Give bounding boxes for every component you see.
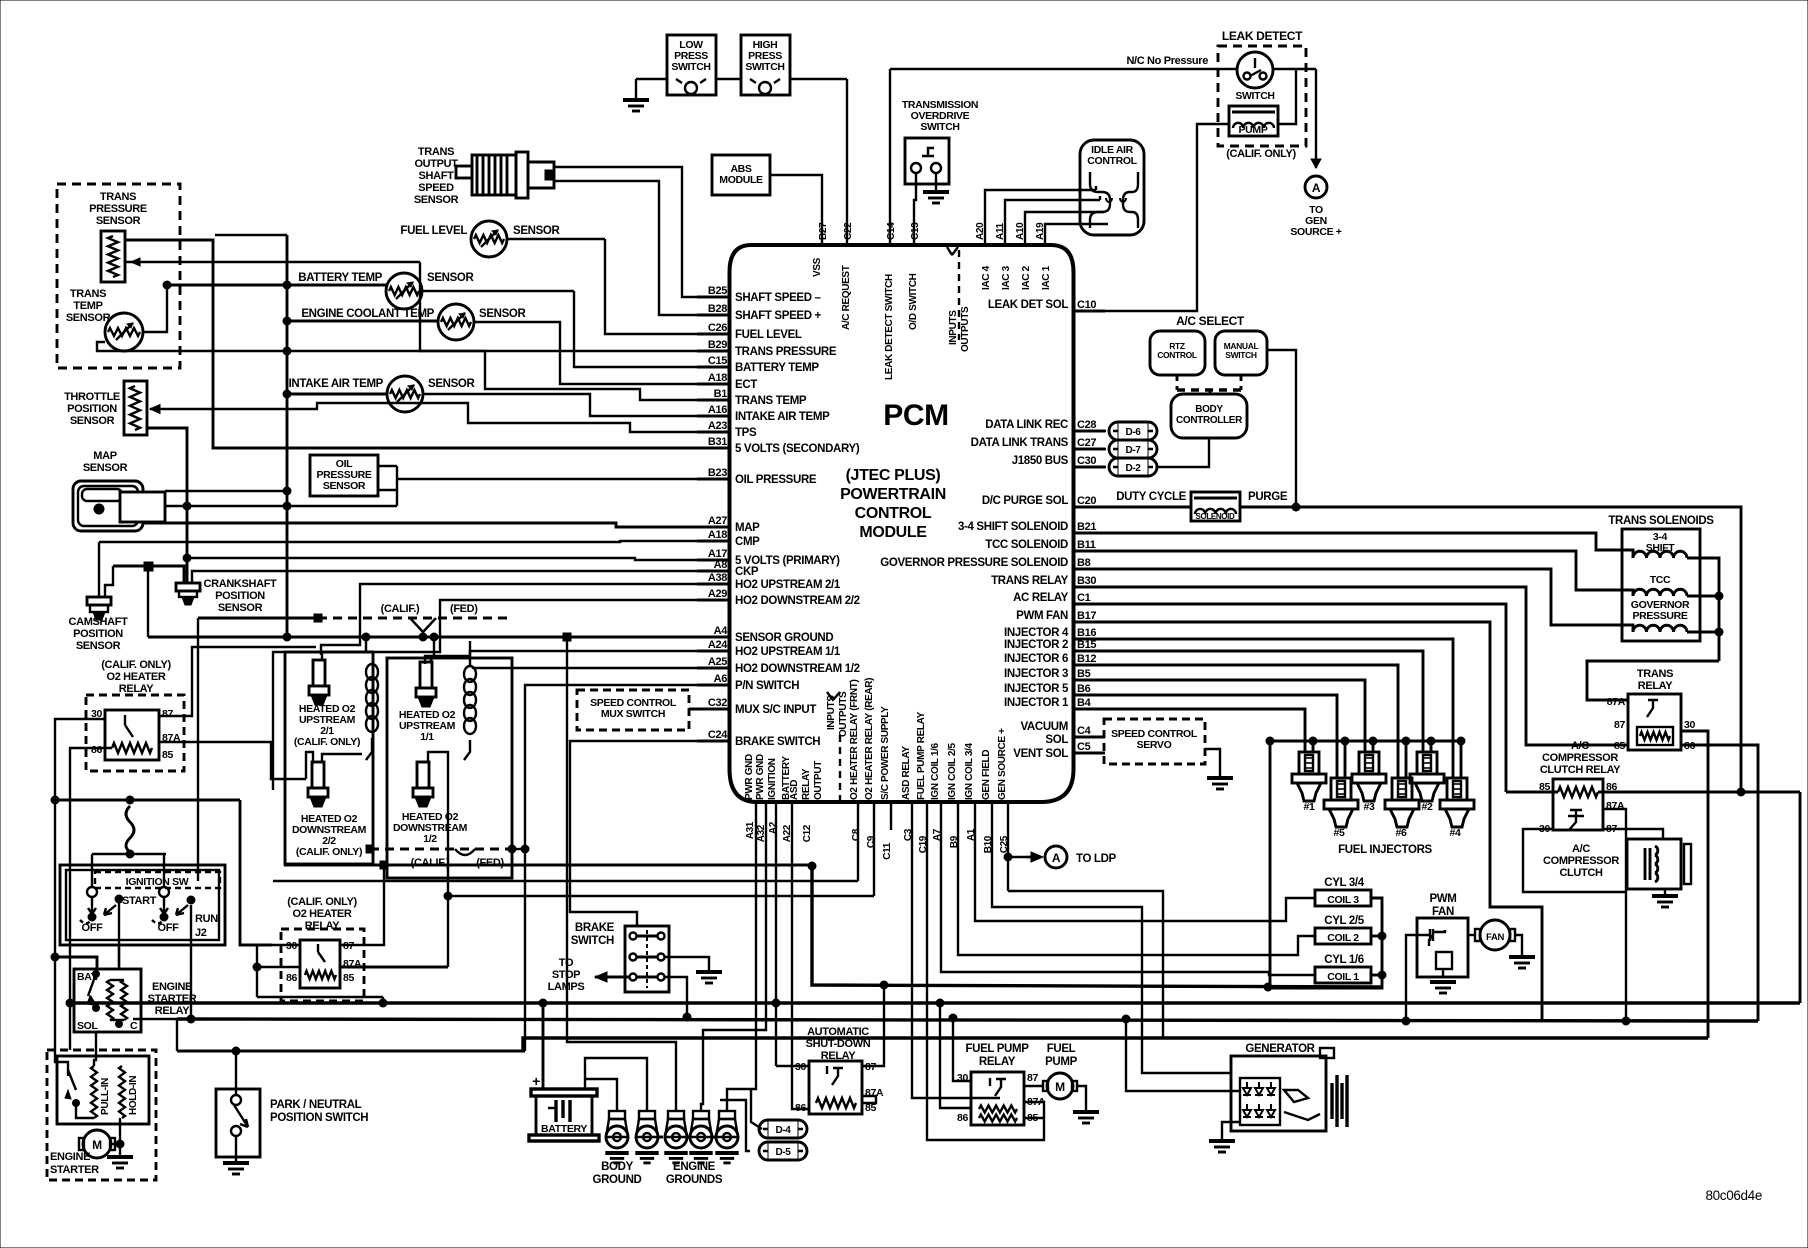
- wire relay1 87A: [159, 742, 306, 779]
- svg-text:MODULE: MODULE: [719, 174, 763, 186]
- svg-text:+: +: [532, 1073, 540, 1089]
- svg-text:P/N SWITCH: P/N SWITCH: [735, 680, 799, 692]
- body ground lug 1: [609, 1111, 625, 1119]
- rtz control box: [1150, 331, 1205, 375]
- svg-text:HO2 DOWNSTREAM 1/2: HO2 DOWNSTREAM 1/2: [735, 663, 860, 675]
- svg-text:O2 HEATER: O2 HEATER: [107, 671, 166, 683]
- high press switch label: [745, 39, 784, 73]
- coil 2 box: [1315, 928, 1371, 944]
- PCM pin A29 HO2 DOWNSTREAM 2/2: [697, 588, 860, 607]
- wire C3 asd relay pin down: [912, 802, 1000, 1098]
- svg-text:BRAKE: BRAKE: [575, 922, 615, 934]
- speed control mux switch label: [590, 697, 677, 720]
- svg-text:SENSOR: SENSOR: [479, 308, 527, 320]
- svg-text:ECT: ECT: [735, 379, 757, 391]
- park neutral position switch box: [216, 1089, 260, 1157]
- MAP sensor symbol: [73, 481, 165, 531]
- engine starter label: [50, 1151, 99, 1176]
- svg-text:D-4: D-4: [775, 1125, 791, 1136]
- svg-text:SHAFT: SHAFT: [419, 170, 455, 182]
- wire sol down to pull-in: [94, 1056, 96, 1066]
- svg-text:SENSOR: SENSOR: [428, 378, 476, 390]
- svg-text:A16: A16: [708, 404, 727, 416]
- wire fuel relay 30 riser: [949, 1014, 971, 1081]
- wire engine coolant temp A18: [283, 317, 730, 384]
- svg-text:A2: A2: [768, 821, 779, 834]
- svg-text:TRANS SOLENOIDS: TRANS SOLENOIDS: [1608, 515, 1714, 527]
- wire B31 5 volts secondary: [125, 240, 730, 448]
- trans output shaft speed sensor symbol: [456, 152, 554, 198]
- PCM pin C3 ASD RELAY: [901, 746, 914, 841]
- svg-text:SENSOR: SENSOR: [96, 215, 141, 227]
- fuel pump motor: [1024, 1073, 1086, 1112]
- a/c select dashed wires: [1177, 375, 1241, 394]
- svg-text:SENSOR: SENSOR: [76, 640, 121, 652]
- wire intake air temp A16: [283, 390, 730, 416]
- engine starter motor M: [79, 1118, 124, 1158]
- body ground label: [592, 1161, 641, 1186]
- svg-text:O/D SWITCH: O/D SWITCH: [908, 273, 919, 330]
- heated O2 upstream 2/1 label: [294, 703, 360, 748]
- wire manual switch to purge line: [1267, 350, 1296, 507]
- svg-text:86: 86: [957, 1112, 968, 1124]
- svg-text:A/C: A/C: [1572, 843, 1590, 855]
- svg-text:86: 86: [91, 744, 102, 756]
- ignition run line y1051: [177, 1050, 525, 1053]
- engine grounds label: [666, 1161, 723, 1186]
- svg-text:ENGINE: ENGINE: [50, 1151, 90, 1163]
- wire HO2 upstream 2/1 A38: [321, 584, 730, 655]
- battery symbol: [529, 1073, 599, 1141]
- svg-text:PWM: PWM: [1429, 893, 1456, 905]
- svg-text:OUTPUTS: OUTPUTS: [960, 306, 971, 352]
- svg-text:DATA LINK REC: DATA LINK REC: [985, 419, 1068, 431]
- low press switch box: [667, 35, 716, 95]
- pwm fan module: [1417, 918, 1468, 977]
- svg-text:CYL 1/6: CYL 1/6: [1324, 954, 1364, 966]
- wire trans relay 86 to rail: [1681, 745, 1758, 1021]
- PCM pin C11 S/C POWER SUPPLY: [880, 706, 893, 860]
- svg-text:B30: B30: [1077, 575, 1096, 587]
- trans pressure sensor dashed box: [57, 184, 180, 368]
- svg-text:IAC 3: IAC 3: [1001, 265, 1012, 290]
- heated O2 downstream 1/2 label: [393, 811, 468, 845]
- svg-text:87A: 87A: [1607, 696, 1626, 708]
- generator ground: [1209, 1122, 1240, 1152]
- svg-text:OFF: OFF: [158, 922, 180, 934]
- svg-text:INJECTOR 2: INJECTOR 2: [1004, 639, 1068, 651]
- a/c compressor clutch label: [1543, 843, 1619, 879]
- camshaft position sensor symbol: [87, 597, 111, 620]
- svg-text:SWITCH: SWITCH: [1235, 90, 1274, 102]
- svg-text:TRANS PRESSURE: TRANS PRESSURE: [735, 346, 837, 358]
- idle air control label: [1087, 144, 1137, 167]
- idle air control valve symbol: [1090, 172, 1138, 228]
- wire C14 leak detect to switch and gen source: [890, 69, 1321, 245]
- PCM pin C25 GEN SOURCE +: [997, 728, 1010, 853]
- calif fed dashed boundary upper: [198, 614, 511, 637]
- svg-text:N/C No Pressure: N/C No Pressure: [1126, 55, 1208, 67]
- svg-text:SOL: SOL: [77, 1020, 98, 1032]
- svg-text:C9: C9: [866, 835, 877, 848]
- ABS module label: [719, 163, 763, 186]
- svg-text:C15: C15: [708, 355, 727, 367]
- svg-text:FUEL PUMP RELAY: FUEL PUMP RELAY: [916, 711, 927, 800]
- svg-text:J1850 BUS: J1850 BUS: [1012, 455, 1069, 467]
- PCM pin C20 D/C PURGE SOL: [982, 495, 1105, 507]
- engine starter dashed box: [47, 1050, 156, 1180]
- wire B11 to tcc: [1105, 551, 1633, 596]
- ABS module box: [712, 155, 770, 195]
- svg-text:SHAFT SPEED +: SHAFT SPEED +: [735, 310, 822, 322]
- svg-text:RELAY: RELAY: [979, 1056, 1016, 1068]
- wire B4 injector 1: [1105, 709, 1305, 752]
- PCM pin B27 VSS: [812, 222, 829, 277]
- svg-text:OFF: OFF: [82, 922, 104, 934]
- fuel pump relay label: [965, 1043, 1029, 1068]
- svg-text:A24: A24: [708, 639, 728, 651]
- svg-text:(JTEC PLUS): (JTEC PLUS): [846, 467, 941, 484]
- node A to LDP: [1045, 846, 1117, 868]
- PCM pin B16 INJECTOR 4: [1004, 627, 1105, 639]
- svg-text:87: 87: [1614, 719, 1625, 731]
- svg-text:FUEL LEVEL: FUEL LEVEL: [400, 225, 467, 237]
- svg-text:LEAK DETECT: LEAK DETECT: [1222, 29, 1303, 43]
- PCM pin B4 INJECTOR 1: [1004, 697, 1105, 709]
- wire brake switch bottom to y1017: [665, 977, 687, 1017]
- ground fan: [1509, 955, 1535, 959]
- wire ABS to B27 VSS: [770, 175, 822, 245]
- wire trans relay 30 to rail: [1681, 731, 1708, 1038]
- wire B16 injector 4 drop: [1105, 639, 1453, 778]
- svg-text:GEN FIELD: GEN FIELD: [981, 750, 992, 800]
- svg-text:#5: #5: [1334, 827, 1345, 839]
- wire x383 down to y1003: [382, 997, 384, 1003]
- arrow to stop lamps: [595, 972, 629, 982]
- svg-text:VACUUM: VACUUM: [1020, 721, 1068, 733]
- svg-text:SOL: SOL: [1045, 734, 1068, 746]
- wire B6 injector 5 drop: [1105, 695, 1337, 778]
- svg-text:FUEL PUMP: FUEL PUMP: [965, 1043, 1029, 1055]
- wire A1 to coil 3: [975, 802, 1315, 921]
- fuel level sensor thermistor: [471, 221, 507, 257]
- ground brake switch: [696, 970, 722, 974]
- fuel injector #6: [1385, 778, 1419, 839]
- svg-text:SOURCE +: SOURCE +: [1290, 226, 1341, 238]
- svg-text:ASD RELAY: ASD RELAY: [901, 746, 912, 800]
- automatic shut-down relay label: [806, 1026, 871, 1062]
- svg-text:IGN COIL 1/6: IGN COIL 1/6: [930, 742, 941, 800]
- svg-text:SENSOR: SENSOR: [66, 312, 111, 324]
- wire o2 1/1 sensor leads: [430, 633, 470, 666]
- crankshaft position sensor symbol: [176, 583, 200, 605]
- PCM title text: [840, 399, 949, 541]
- PCM pin C30 J1850 BUS: [1012, 455, 1105, 467]
- wire C11 stub down: [890, 802, 892, 830]
- svg-text:RELAY: RELAY: [119, 683, 155, 695]
- wire battery positive up to y1003: [539, 999, 547, 1089]
- wire C13 o/d switch: [914, 173, 916, 245]
- svg-text:A: A: [1312, 181, 1321, 195]
- svg-text:ENGINE: ENGINE: [673, 1161, 716, 1173]
- wire B9 to coil 2: [958, 802, 1315, 955]
- svg-text:C30: C30: [1077, 455, 1096, 467]
- trans temp sensor label: [66, 288, 111, 324]
- wire relay2 87 up: [340, 865, 384, 945]
- PCM pin C13 O/D SWITCH: [908, 222, 921, 330]
- wire B12 injector 6 drop: [1105, 665, 1398, 778]
- sensor ground line A4: [148, 633, 730, 641]
- generator pulley: [1332, 1075, 1347, 1127]
- trans pressure sensor resistor: [101, 231, 125, 282]
- svg-text:TRANS: TRANS: [1637, 668, 1673, 680]
- svg-text:POSITION SWITCH: POSITION SWITCH: [270, 1112, 368, 1124]
- leak detect pump symbol: [1229, 106, 1278, 136]
- svg-text:BATTERY: BATTERY: [541, 1123, 587, 1135]
- wire C27 to D-7: [1074, 448, 1107, 450]
- svg-text:GROUND: GROUND: [592, 1174, 641, 1186]
- purge solenoid symbol: [1191, 492, 1240, 521]
- heated O2 upstream 1/1 label: [399, 709, 456, 743]
- svg-text:O2 HEATER: O2 HEATER: [293, 908, 352, 920]
- svg-text:A29: A29: [708, 588, 727, 600]
- svg-text:86: 86: [286, 972, 297, 984]
- wire x198 down: [197, 618, 199, 881]
- brake switch box: [625, 926, 669, 992]
- svg-text:CLUTCH: CLUTCH: [1559, 867, 1603, 879]
- manual switch box: [1215, 331, 1267, 375]
- svg-text:MAP: MAP: [735, 522, 760, 534]
- svg-text:FUEL: FUEL: [1047, 1043, 1076, 1055]
- lug dash links: [659, 1136, 716, 1139]
- PCM pin A17 5 VOLTS (PRIMARY): [697, 548, 840, 567]
- wire C32 mux: [689, 708, 730, 711]
- fuel injector #5: [1324, 778, 1358, 839]
- svg-text:CONTROL: CONTROL: [1157, 350, 1197, 360]
- wire asd relay 85-87A stub: [862, 1096, 876, 1103]
- wire A7 to coil 1: [941, 802, 1315, 975]
- svg-text:ENGINE: ENGINE: [152, 981, 192, 993]
- wire CMP signal A18: [99, 541, 730, 596]
- generator box: [1231, 1048, 1334, 1131]
- trans temp sensor thermistor: [105, 313, 143, 351]
- svg-text:A/C REQUEST: A/C REQUEST: [841, 265, 852, 330]
- PCM pin B28 SHAFT SPEED +: [697, 303, 822, 322]
- PCM pin A4 SENSOR GROUND: [697, 625, 833, 644]
- svg-text:A25: A25: [708, 656, 727, 668]
- svg-text:SENSOR: SENSOR: [414, 194, 459, 206]
- PCM pin A23 TPS: [697, 420, 757, 439]
- PCM module outline U1: [730, 245, 1074, 802]
- svg-text:FUEL INJECTORS: FUEL INJECTORS: [1338, 844, 1432, 856]
- wire fuel relay 85 stub: [1024, 1117, 1044, 1119]
- svg-text:B21: B21: [1077, 521, 1096, 533]
- svg-text:POSITION: POSITION: [73, 628, 123, 640]
- svg-text:A6: A6: [714, 673, 728, 685]
- svg-text:HO2 UPSTREAM 1/1: HO2 UPSTREAM 1/1: [735, 646, 841, 658]
- wire D-2 to body controller: [1157, 438, 1209, 467]
- wire C20 purge sol: [1074, 506, 1192, 509]
- wire oil pressure sensor B23: [378, 466, 730, 506]
- PCM pin C26 FUEL LEVEL: [697, 322, 802, 341]
- PCM pin B15 INJECTOR 2: [1004, 639, 1105, 651]
- svg-text:RUN: RUN: [195, 913, 218, 925]
- wire fuel relay 87A loop C19: [927, 802, 1044, 1140]
- PCM pin B23 OIL PRESSURE: [697, 467, 817, 486]
- crankshaft position sensor label: [204, 578, 278, 614]
- svg-text:TRANS: TRANS: [100, 191, 136, 203]
- svg-text:SERVO: SERVO: [1137, 739, 1172, 751]
- svg-text:C20: C20: [1077, 495, 1096, 507]
- oil pressure sensor box: [310, 455, 378, 496]
- wire servo to ground: [1205, 749, 1220, 778]
- svg-text:A18: A18: [708, 372, 727, 384]
- svg-text:COIL 3: COIL 3: [1327, 894, 1359, 906]
- svg-text:M: M: [92, 1138, 102, 1152]
- wire A24 HO2 upstream 1/1: [425, 651, 730, 664]
- wire fuel relay 86 riser: [936, 999, 971, 1108]
- svg-text:M: M: [1055, 1080, 1065, 1094]
- wire ignition start contact down: [118, 899, 120, 969]
- a/c compressor clutch symbol: [1627, 839, 1691, 896]
- wire o2 2/1 sensor leads: [322, 633, 370, 660]
- svg-text:(FED): (FED): [450, 603, 478, 615]
- svg-text:OIL PRESSURE: OIL PRESSURE: [735, 474, 817, 486]
- svg-text:PWM FAN: PWM FAN: [1016, 610, 1068, 622]
- svg-text:TRANS TEMP: TRANS TEMP: [735, 395, 807, 407]
- svg-text:A38: A38: [708, 572, 727, 584]
- wire ac relay 85 86 rail y792: [1506, 792, 1800, 1003]
- svg-text:A: A: [1052, 851, 1061, 865]
- ground p/n switch: [223, 1161, 249, 1165]
- svg-text:(CALIF. ONLY): (CALIF. ONLY): [287, 896, 357, 908]
- fan motor: [1468, 920, 1522, 957]
- svg-text:SENSOR: SENSOR: [323, 480, 366, 492]
- svg-text:ENGINE COOLANT TEMP: ENGINE COOLANT TEMP: [301, 308, 434, 320]
- wire C30 to D-2: [1074, 466, 1107, 468]
- svg-text:D-6: D-6: [1125, 427, 1141, 438]
- svg-text:#2: #2: [1422, 801, 1433, 813]
- injector feed bus: [1266, 737, 1461, 987]
- svg-text:ASD: ASD: [789, 780, 800, 800]
- ground for o/d switch: [923, 190, 949, 194]
- svg-text:PCM: PCM: [883, 399, 949, 432]
- PCM pin A2 IGNITION: [767, 758, 779, 834]
- svg-text:C11: C11: [882, 842, 893, 860]
- svg-text:GROUNDS: GROUNDS: [666, 1174, 723, 1186]
- transmission overdrive switch label: [902, 99, 978, 133]
- svg-text:SWITCH: SWITCH: [1225, 350, 1257, 360]
- PCM pin C15 BATTERY TEMP: [697, 355, 819, 374]
- svg-text:MAP: MAP: [93, 450, 116, 462]
- PCM pin C28 DATA LINK REC: [985, 419, 1105, 431]
- PCM pin A11 IAC 3: [995, 222, 1012, 290]
- PCM pin B30 TRANS RELAY: [991, 575, 1105, 587]
- data link connector D-7: [1109, 440, 1157, 458]
- engine coolant temp thermistor: [438, 304, 474, 340]
- PCM pin A27 MAP: [697, 515, 760, 534]
- wire C28 to D-6: [1074, 430, 1107, 432]
- wire x287 top to trans pressure: [215, 234, 287, 236]
- svg-text:C14: C14: [886, 222, 897, 240]
- wire C10 leak det sol to pump: [1074, 69, 1297, 311]
- rail y985 C12 asd output: [812, 866, 1382, 991]
- wire C22 a/c request: [846, 79, 848, 245]
- svg-text:PULL-IN: PULL-IN: [100, 1078, 111, 1115]
- svg-text:B17: B17: [1077, 610, 1096, 622]
- svg-text:SPEED: SPEED: [418, 182, 454, 194]
- PCM inputs/outputs divider bottom: [826, 691, 849, 802]
- svg-text:30: 30: [1684, 719, 1695, 731]
- svg-text:AUTOMATIC: AUTOMATIC: [807, 1026, 869, 1038]
- svg-text:SENSOR GROUND: SENSOR GROUND: [735, 632, 833, 644]
- wire CMP second lead: [105, 566, 113, 596]
- to stop lamps label: [548, 957, 585, 993]
- engine ground lug 5: [719, 1111, 735, 1119]
- svg-text:5 VOLTS (SECONDARY): 5 VOLTS (SECONDARY): [735, 443, 860, 455]
- speed control servo dashed box: [1104, 719, 1205, 764]
- svg-text:B12: B12: [1077, 653, 1096, 665]
- svg-text:B6: B6: [1077, 683, 1091, 695]
- svg-text:CAMSHAFT: CAMSHAFT: [69, 616, 129, 628]
- svg-text:PURGE: PURGE: [1248, 491, 1288, 503]
- svg-text:87: 87: [162, 708, 173, 720]
- svg-text:SENSOR: SENSOR: [427, 272, 475, 284]
- wire MAP mid to CKP bus: [147, 428, 397, 583]
- wire heater 1/2 lead to x448: [428, 752, 448, 967]
- svg-text:LEAK DET SOL: LEAK DET SOL: [988, 299, 1068, 311]
- svg-text:(CALIF. ONLY): (CALIF. ONLY): [1226, 148, 1296, 160]
- engine starter hold-in coil: [119, 1066, 139, 1118]
- svg-text:START: START: [122, 895, 157, 907]
- svg-text:HO2 DOWNSTREAM 2/2: HO2 DOWNSTREAM 2/2: [735, 595, 860, 607]
- calif only O2 heater relay label: [101, 659, 171, 695]
- svg-text:(CALIF.): (CALIF.): [381, 603, 420, 615]
- wire asd relay 30 from ignition line: [772, 802, 809, 1066]
- trans solenoids box: [1622, 529, 1700, 641]
- trans pressure sensor label: [89, 191, 147, 227]
- svg-text:TCC: TCC: [1650, 574, 1671, 586]
- heated O2 upstream 2/1 sensor: [313, 660, 325, 686]
- svg-text:INJECTOR 3: INJECTOR 3: [1004, 668, 1068, 680]
- wires IAC to pins A20 A11 A10 A19: [985, 186, 1108, 245]
- PCM pin C27 DATA LINK TRANS: [971, 437, 1105, 449]
- press switch wire to ground: [636, 79, 847, 100]
- node A to gen source: [1305, 176, 1327, 198]
- svg-text:TO LDP: TO LDP: [1076, 853, 1117, 865]
- svg-text:INJECTOR 5: INJECTOR 5: [1004, 683, 1069, 695]
- svg-text:PARK / NEUTRAL: PARK / NEUTRAL: [270, 1099, 362, 1111]
- svg-text:IGNITION: IGNITION: [767, 758, 778, 800]
- svg-text:SWITCH: SWITCH: [571, 935, 614, 947]
- svg-text:POSITION: POSITION: [67, 403, 117, 415]
- svg-text:INJECTOR 6: INJECTOR 6: [1004, 653, 1068, 665]
- pwm fan label: [1429, 893, 1456, 918]
- svg-text:FAN: FAN: [1432, 906, 1454, 918]
- svg-text:D-7: D-7: [1125, 445, 1141, 456]
- wire B5 injector 3 drop: [1105, 680, 1365, 752]
- svg-text:INTAKE AIR TEMP: INTAKE AIR TEMP: [289, 378, 384, 390]
- high press switch box: [741, 35, 790, 95]
- svg-text:1/1: 1/1: [420, 731, 434, 743]
- wire C4 C5 to servo: [1104, 737, 1105, 753]
- idle air control box: [1080, 140, 1144, 235]
- svg-text:C22: C22: [843, 222, 854, 240]
- engine starter relay label: [148, 981, 197, 1017]
- svg-text:J2: J2: [195, 927, 207, 939]
- wire CKP A8: [113, 562, 730, 637]
- wire C25 gen source ldp branch: [1004, 802, 1043, 891]
